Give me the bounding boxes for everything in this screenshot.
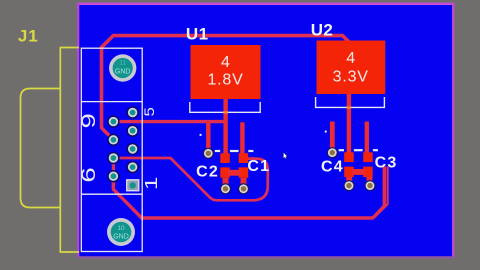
- svg-text:U1: U1: [186, 25, 209, 44]
- svg-text:C4: C4: [321, 159, 344, 176]
- wire C4 bottom pad to via: [346, 177, 352, 182]
- svg-text:1: 1: [141, 177, 161, 191]
- wire stub to C1 top pad: [240, 122, 244, 154]
- wire stub to via left of C4: [330, 122, 335, 152]
- marker dot right: [325, 131, 327, 133]
- via near C4: [327, 147, 338, 158]
- svg-text:1.8V: 1.8V: [207, 72, 243, 89]
- svg-text:9: 9: [79, 113, 100, 128]
- U2 silkscreen bracket: [316, 97, 385, 107]
- svg-text:6: 6: [79, 167, 100, 182]
- regulator U1 body: [191, 45, 261, 99]
- junction blend U1 bracket: [223, 111, 228, 113]
- pin 4 pad: [126, 125, 138, 137]
- svg-text:10: 10: [117, 225, 125, 232]
- wire U2 pad to C4 top pad: [347, 94, 351, 153]
- wire C3 bottom pad to via: [367, 177, 373, 182]
- wire stub to C3 top pad: [365, 122, 369, 154]
- svg-text:C3: C3: [375, 154, 398, 171]
- pad 10 GND (mounting hole): [107, 218, 135, 246]
- wire C4-C3 bottom pads connect bar: [352, 169, 365, 175]
- mouse cursor: [283, 152, 287, 159]
- component outline J1 footprint box: [81, 48, 142, 251]
- trace pin8 to U2 top (3.3V input net): [102, 36, 349, 140]
- trace pin9 to U1 output vertical (1.8V net): [113, 120, 225, 123]
- via below C1: [238, 183, 249, 194]
- connector J1 shell outline: [21, 89, 61, 208]
- wire stub to via left of C2: [206, 122, 210, 152]
- wire C2 bottom pad to via: [223, 178, 229, 185]
- pin 2 pad: [126, 161, 138, 173]
- capacitor C3 pads: [363, 152, 373, 177]
- wire C1 bottom pad to via: [241, 178, 247, 185]
- pin 8 pad: [107, 134, 119, 146]
- U1 silkscreen bracket: [190, 102, 260, 112]
- wire C2-C1 bottom pads connect bar: [228, 170, 241, 176]
- pad 11 GND (mounting hole): [109, 54, 136, 81]
- junction blend U2 bracket: [347, 106, 352, 108]
- svg-text:J1: J1: [18, 27, 39, 46]
- via below C4: [344, 180, 355, 191]
- wire strap pin7 to pin6: [112, 158, 115, 189]
- via below C2: [220, 183, 231, 194]
- board edge bottom: [77, 256, 455, 258]
- svg-text:GND: GND: [113, 234, 129, 241]
- pin 1 square pad: [127, 180, 139, 191]
- svg-text:3.3V: 3.3V: [333, 69, 369, 86]
- regulator U2 body: [317, 41, 386, 95]
- svg-text:4: 4: [346, 50, 355, 67]
- svg-text:C1: C1: [247, 158, 270, 175]
- trace pin7 loop to C1 right pad (GND loop): [113, 158, 267, 200]
- svg-text:5: 5: [142, 107, 157, 116]
- svg-text:11: 11: [119, 60, 126, 67]
- capacitor C1 pads: [239, 153, 249, 178]
- pin 9 pad: [107, 115, 119, 127]
- svg-text:GND: GND: [115, 69, 131, 76]
- pin 6 pad: [107, 170, 119, 182]
- board outline (PCB): [79, 5, 452, 257]
- wire U1 pad to C2 top pad: [223, 98, 227, 154]
- pin 3 pad: [126, 143, 138, 155]
- board edge left: [77, 3, 80, 258]
- board edge top: [76, 2, 454, 5]
- via below C3: [365, 180, 376, 191]
- silkscreen dashes C2 C1: [215, 150, 254, 152]
- capacitor C2 pads: [220, 153, 230, 178]
- trace pin6 along bottom to C3 (GND bottom run): [113, 167, 384, 219]
- svg-text:4: 4: [221, 54, 230, 71]
- silkscreen dashes C4 C3: [339, 149, 378, 151]
- svg-text:C2: C2: [196, 164, 219, 181]
- trace C3 pad parallel branch: [374, 167, 387, 218]
- capacitor C4 pads: [344, 152, 354, 177]
- pin 5 pad: [126, 106, 138, 118]
- connector J1 body outline: [60, 48, 79, 253]
- pin 7 pad: [107, 152, 119, 164]
- svg-text:U2: U2: [311, 21, 334, 40]
- marker dot left: [200, 134, 202, 136]
- via near C2: [203, 148, 214, 159]
- board edge right: [452, 3, 455, 258]
